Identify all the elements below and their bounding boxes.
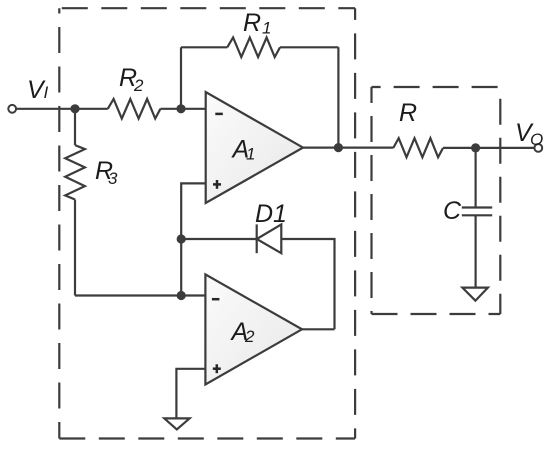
pin A2 minus (212, 298, 220, 301)
wire feedback top left (181, 46, 227, 48)
svg-text:C: C (443, 197, 462, 225)
label R3 (95, 157, 118, 188)
label R (399, 99, 417, 127)
wire node B up to feedback (180, 47, 182, 109)
label A1 (231, 136, 256, 164)
wire feedback down to output node (337, 47, 339, 147)
capacitor C (462, 148, 492, 288)
label R2 (119, 64, 144, 95)
pin A1 minus (215, 113, 223, 116)
resistor R3 (65, 109, 85, 296)
input terminal VI (8, 105, 16, 113)
wire A2 inverting input (181, 294, 205, 296)
wire node B to A1 inverting input (181, 108, 206, 110)
dashed enclosure box 2 (372, 87, 501, 314)
diode D1 (257, 224, 282, 253)
wire A1 output (303, 147, 393, 149)
label D1 (255, 200, 287, 228)
label C (443, 197, 462, 225)
junction node D (177, 234, 186, 243)
junction node B (176, 104, 185, 113)
output terminal VO (534, 144, 542, 152)
wire R to output node E (443, 147, 534, 149)
wire A2 output (302, 328, 335, 330)
wire feedback top right (280, 46, 338, 48)
junction node E (471, 143, 480, 152)
svg-text:D1: D1 (255, 200, 287, 228)
svg-text:1: 1 (246, 145, 255, 164)
svg-text:I: I (44, 83, 49, 102)
dashed enclosure box 1 (59, 8, 355, 438)
wire A2 noninverting input to ground (176, 369, 205, 419)
resistor R1 (227, 38, 280, 58)
resistor R (393, 138, 443, 157)
label R1 (243, 9, 271, 38)
junction node C (177, 291, 186, 300)
svg-text:R: R (399, 99, 417, 127)
wire A1 noninverting input (181, 183, 206, 295)
wire input to node A (16, 108, 108, 110)
junction output node (334, 143, 343, 152)
pin A1 plus (213, 180, 221, 189)
svg-text:O: O (530, 130, 543, 149)
label A2 (230, 318, 256, 346)
junction node A (70, 104, 79, 113)
ground symbol under C (462, 288, 488, 301)
svg-text:R: R (243, 9, 261, 37)
ground symbol under A2 (164, 418, 189, 429)
wire R3 bottom to node C (75, 294, 181, 296)
svg-text:2: 2 (133, 76, 144, 95)
op-amp A2 (205, 274, 302, 384)
svg-text:1: 1 (262, 19, 271, 38)
wire diode to A2 feedback corner (281, 239, 334, 329)
pin A2 plus (213, 364, 221, 373)
resistor R2 (108, 99, 161, 119)
svg-text:2: 2 (244, 327, 255, 346)
label VO (515, 119, 543, 149)
label VI (27, 76, 49, 104)
wire R2 to node B (160, 108, 181, 110)
op-amp A1 (206, 92, 303, 203)
svg-text:3: 3 (108, 169, 118, 188)
wire node D to diode (181, 238, 257, 240)
